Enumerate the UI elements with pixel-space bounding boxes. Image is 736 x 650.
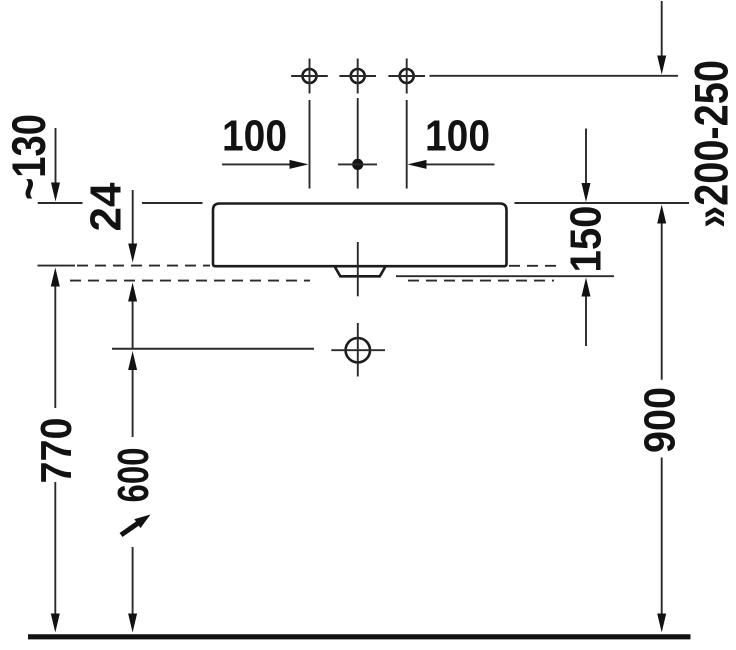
dimension line 24 with down arrow: [132, 190, 134, 244]
underside level solid segment left: [38, 265, 76, 267]
dimension 600 line lower with down arrow: [132, 547, 134, 614]
dimension line ~130 with down arrow: [55, 128, 57, 183]
dimension 770 line lower with down arrow: [54, 482, 56, 614]
reference dot on middle centerline: [352, 159, 363, 170]
dimension line 200-250 vertical with down arrow: [661, 1, 663, 56]
dimension 900 up arrow at rim: [657, 205, 666, 224]
faucet hole circle middle: [339, 59, 376, 94]
dimension 770 line upper: [54, 287, 56, 409]
dimension 900 line lower with down arrow: [661, 458, 663, 614]
drain pipe circle: [346, 338, 370, 362]
dimension line 100 right with left arrow: [426, 163, 495, 165]
dimension line 100 left with right arrow: [222, 163, 291, 165]
svg-text:770: 770: [32, 418, 81, 484]
dimension 600 up arrow at drain line: [128, 351, 137, 370]
short line through dot: [338, 163, 377, 165]
dimension 150 lower up arrow and tail: [582, 278, 591, 297]
underside level dashed right: [509, 265, 560, 267]
svg-text:600: 600: [109, 448, 158, 503]
centerline below right circle: [406, 100, 408, 189]
rim level extension line left segment 2: [142, 202, 203, 204]
centerline below left circle: [309, 100, 311, 189]
rim level extension line right: [515, 202, 690, 204]
lower solid reference line under 150: [396, 275, 614, 277]
underside level dashed left: [77, 265, 210, 267]
svg-text:100: 100: [425, 112, 490, 161]
dimension 150 upper line with down arrow: [585, 129, 587, 185]
drain pipe level line: [112, 348, 314, 350]
svg-text:24: 24: [82, 182, 131, 232]
floor line: [28, 634, 691, 639]
water connection level line: [430, 75, 679, 77]
rim level extension line left segment 1: [38, 202, 83, 204]
small dimension up arrow at lower dashed line: [128, 283, 137, 302]
faucet hole circle right: [388, 59, 425, 94]
drain pipe crosshair: [331, 323, 385, 377]
lower dashed line right: [408, 280, 554, 282]
dimension 770 up arrow at underside: [51, 268, 60, 287]
lower dashed line left: [70, 280, 310, 282]
svg-text:»200-250: »200-250: [685, 60, 736, 228]
svg-text:150: 150: [562, 206, 611, 273]
line between dashed line and drain line: [132, 302, 134, 349]
svg-text:900: 900: [636, 387, 685, 453]
svg-text:~130: ~130: [2, 114, 55, 200]
dimension 900 line upper: [661, 224, 663, 380]
svg-text:100: 100: [222, 112, 287, 161]
dimension 600 line upper: [132, 370, 134, 437]
drain direction diagonal arrow: [121, 523, 138, 535]
centerline below middle circle: [357, 98, 359, 189]
middle centerline through basin bottom: [357, 242, 359, 296]
faucet hole circle left: [291, 59, 328, 94]
washbasin outline: [213, 204, 507, 267]
drain boss trapezoid: [335, 266, 386, 276]
